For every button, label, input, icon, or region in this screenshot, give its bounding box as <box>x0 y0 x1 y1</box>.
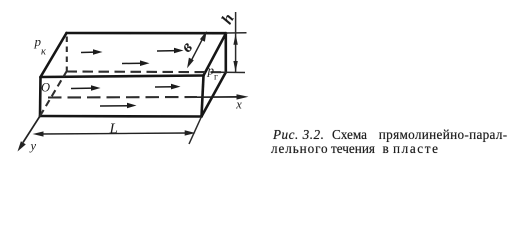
svg-text:x: x <box>235 98 242 112</box>
svg-text:в: в <box>177 37 196 56</box>
svg-text:O: O <box>41 81 50 95</box>
svg-text:L: L <box>109 121 118 137</box>
svg-text:к: к <box>41 47 46 58</box>
svg-text:г: г <box>214 73 218 83</box>
svg-text:y: y <box>29 139 37 153</box>
